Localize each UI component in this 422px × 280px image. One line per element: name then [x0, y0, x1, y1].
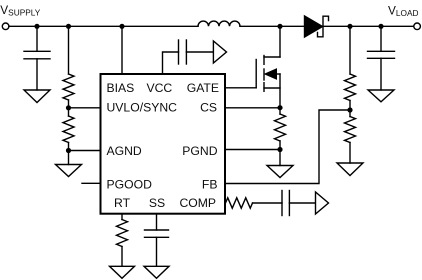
diode D1 (Schottky)	[305, 16, 323, 37]
svg-text:AGND: AGND	[107, 144, 142, 158]
svg-text:GATE: GATE	[187, 81, 219, 95]
capacitor C5 (output)	[368, 26, 395, 90]
svg-text:BIAS: BIAS	[107, 81, 135, 95]
wire PGOOD stub	[82, 182, 100, 184]
wire: R4 to ground	[121, 247, 123, 267]
ground (SS)	[144, 266, 169, 278]
off-page arrow (COMP net)	[316, 192, 329, 214]
svg-text:SS: SS	[149, 196, 165, 210]
wire: output node to R6	[349, 26, 351, 74]
junction: CS node	[277, 105, 282, 110]
ground (PGND)	[267, 166, 293, 178]
wire: R5 to C4	[253, 202, 283, 204]
wire: rail to R1	[68, 26, 70, 74]
junction: output node at cap	[378, 24, 383, 29]
wire FB net: FB pin to divider tap	[226, 110, 350, 184]
transistor Q1 (N-MOSFET)	[256, 56, 280, 92]
wire: R7 leads	[349, 110, 351, 163]
svg-text:FB: FB	[202, 177, 218, 191]
wire top rail: supply terminal to inductor	[9, 25, 198, 27]
svg-text:UVLO/SYNC: UVLO/SYNC	[107, 101, 178, 115]
wire: C3 to ground	[156, 237, 158, 266]
svg-text:VLOAD: VLOAD	[388, 4, 418, 19]
capacitor C1 (input)	[24, 26, 50, 90]
junction: PGND node	[277, 147, 282, 152]
wire: R3 leads	[279, 108, 281, 150]
resistor R3 (current sense)	[275, 114, 286, 141]
capacitor C3 (SS)	[145, 230, 169, 237]
wire: node to ground	[68, 151, 70, 165]
junction: input cap node	[34, 24, 39, 29]
capacitor C4 (COMP)	[282, 191, 289, 216]
wire: UVLO tap to UVLO/SYNC pin	[69, 107, 101, 109]
terminal VLOAD	[414, 23, 421, 30]
wire VCC: IC top to bypass cap	[163, 52, 179, 74]
ground (input cap)	[24, 90, 50, 103]
op-amp U1 IC body	[101, 74, 226, 214]
wire: AGND pin to node	[69, 150, 101, 152]
resistor R2 (UVLO lower)	[63, 116, 74, 143]
capacitor C2 (VCC)	[179, 40, 187, 64]
svg-text:RT: RT	[114, 196, 131, 210]
wire: inductor to diode anode	[240, 25, 305, 27]
junction: AGND node	[66, 148, 71, 153]
resistor R1 (UVLO upper)	[63, 74, 74, 100]
junction: BIAS node	[119, 24, 124, 29]
resistor R4 (RT)	[117, 220, 128, 247]
wire: C4 to arrow	[289, 202, 315, 204]
svg-text:PGOOD: PGOOD	[107, 177, 153, 191]
wire: switch node to Q1 drain	[279, 26, 281, 57]
terminal VSUPPLY	[2, 23, 9, 30]
wire BIAS: rail to IC top	[121, 26, 123, 73]
svg-text:CS: CS	[200, 101, 217, 115]
junction: switch node	[277, 24, 282, 29]
wire: PGND pin to node	[226, 149, 280, 151]
ground (feedback divider)	[337, 163, 363, 176]
wire: R6 to tap	[349, 101, 351, 111]
junction: output node at divider	[347, 24, 352, 29]
resistor R7 (feedback lower)	[345, 117, 356, 143]
wire: Q1 source to CS node	[279, 74, 281, 108]
svg-text:VSUPPLY: VSUPPLY	[0, 3, 40, 18]
off-page arrow (VCC net)	[213, 41, 226, 63]
svg-text:VCC: VCC	[147, 81, 173, 95]
inductor L1	[198, 21, 240, 26]
junction: FB tap	[347, 107, 352, 112]
ground (AGND)	[56, 165, 82, 177]
svg-text:PGND: PGND	[182, 144, 217, 158]
wire: diode cathode to load terminal	[323, 25, 414, 27]
wire: SS pin lead	[156, 214, 158, 230]
junction: UVLO tap	[66, 105, 71, 110]
wire: C2 to arrow	[186, 51, 213, 53]
wire: CS pin to CS node	[226, 107, 280, 109]
junction: UVLO divider node	[66, 24, 71, 29]
wire GATE pin to MOSFET gate	[226, 87, 256, 89]
ground (output cap)	[368, 90, 394, 102]
wire: R2 leads	[68, 108, 70, 151]
resistor R6 (feedback upper)	[345, 74, 356, 101]
wire: PGND node to ground	[279, 150, 281, 166]
wire: RT pin lead	[121, 214, 123, 220]
ground (RT)	[110, 266, 135, 278]
wire: R1 to UVLO tap	[68, 100, 70, 108]
svg-text:COMP: COMP	[179, 196, 216, 210]
resistor R5 (COMP)	[226, 198, 253, 208]
